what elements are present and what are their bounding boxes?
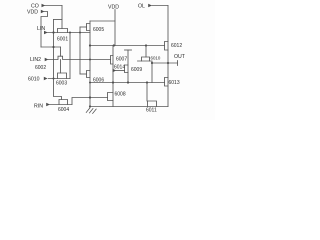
svg-text:6014: 6014 (114, 64, 125, 70)
node OUT label (174, 54, 186, 60)
junction dot O (127, 81, 129, 83)
transistor 6010 gate staple (142, 57, 150, 61)
wire vertical down to gate of 6003 (60, 47, 62, 73)
svg-text:6011: 6011 (146, 108, 157, 114)
junction dot A (52, 31, 54, 33)
transistor 6002 label (35, 65, 46, 71)
wire top horizontal to VDD2 (90, 20, 115, 22)
wire gate lead of 6005 (80, 26, 87, 28)
wire OUT line (152, 62, 178, 64)
wire x152 down (151, 63, 153, 83)
transistor 6004 gate staple (59, 100, 68, 105)
wire link gate line to gate of 6010 (145, 46, 147, 58)
node CO input arrow (42, 4, 46, 7)
svg-text:6005: 6005 (93, 27, 104, 33)
wire column x80 gate of 6005 and 6006 (79, 27, 81, 74)
node RIN input arrow (46, 103, 50, 106)
transistor 6001 label (57, 37, 68, 43)
transistor 6013 gate staple (165, 78, 169, 87)
transistor 6009 gate staple (125, 65, 129, 73)
svg-text:6004: 6004 (58, 107, 69, 113)
wire 6004 drain up and right to gate of 6008 (72, 98, 108, 105)
transistor 6003 gate staple (58, 73, 67, 79)
wire bottom rail (90, 106, 168, 108)
node OL input label (138, 4, 145, 10)
wire channel of 6003 (48, 78, 70, 80)
junction dot M (89, 82, 91, 84)
transistor 6012 label (171, 43, 182, 49)
svg-text:6008: 6008 (115, 91, 126, 97)
ground VSS hatch (86, 108, 96, 114)
node VDD input arrow (41, 10, 45, 13)
junction dot D (79, 32, 81, 34)
transistor 6011 gate staple (148, 101, 157, 107)
svg-text:6009: 6009 (131, 67, 142, 73)
transistor 6005 gate staple (87, 24, 91, 31)
svg-text:RIN: RIN (34, 103, 43, 109)
wire VDD2 lead down (114, 10, 116, 46)
junction dot C (69, 32, 71, 34)
junction dot K (151, 62, 153, 64)
junction dot Q (53, 78, 55, 80)
transistor 6007 label (116, 57, 127, 63)
wire gate lead of 6011 (146, 83, 148, 102)
transistor 6008 label (115, 91, 126, 97)
svg-text:OL: OL (138, 4, 145, 10)
junction dot G (145, 44, 147, 46)
wire gate line of 6012 (90, 45, 165, 47)
wire gate link horizontal (54, 19, 63, 21)
svg-text:6001: 6001 (57, 37, 68, 43)
wire channel of 6004 (50, 104, 72, 106)
transistor 6009 label (131, 67, 142, 73)
node OUT terminal tick (177, 61, 179, 66)
svg-text:6010: 6010 (151, 55, 161, 60)
transistor 6013 label (169, 80, 180, 86)
transistor 6004 label (58, 107, 69, 113)
junction dot B (52, 46, 54, 48)
svg-text:VDD: VDD (27, 10, 38, 16)
wire column x70 (69, 33, 71, 79)
svg-text:OUT: OUT (174, 54, 186, 60)
wire VDD horizontal to gate column (41, 46, 61, 48)
node 6014 input label (114, 64, 125, 70)
junction dot I (89, 96, 91, 98)
node LIN2 input label (30, 57, 41, 63)
wire column x113 (112, 46, 114, 107)
wire gate lead of 6006 (80, 73, 87, 75)
transistor 6007 gate staple (111, 56, 114, 65)
svg-text:6003: 6003 (56, 81, 67, 87)
transistor 6001 gate staple (58, 29, 68, 33)
node RIN input label (34, 103, 43, 109)
junction dot F (113, 44, 115, 46)
wire column x90 channel of 6005 and 6006 (89, 21, 91, 107)
transistor 6003 label (56, 81, 67, 87)
junction dot P (146, 81, 148, 83)
svg-text:LIN2: LIN2 (30, 57, 41, 63)
node VDD input label (left) (27, 10, 38, 16)
svg-text:6002: 6002 (35, 65, 46, 71)
wire gate chain of 6004 (54, 79, 62, 100)
junction dot H (89, 59, 91, 61)
wire channel of 6009 (127, 50, 129, 83)
wire column x53.5 (53, 20, 55, 79)
svg-text:6010: 6010 (28, 76, 40, 82)
node 6010 input arrow (44, 77, 48, 80)
wire CO vertical to gate of 6001 (61, 6, 63, 29)
node LIN input label (37, 26, 45, 32)
junction dot J (89, 105, 91, 107)
svg-text:6007: 6007 (116, 57, 127, 63)
node OL input arrow (148, 4, 152, 7)
wire VDD jog (41, 12, 48, 48)
svg-text:VDD: VDD (108, 5, 119, 11)
wire LIN / channel of 6001 (48, 32, 90, 34)
wire CO horizontal (45, 5, 62, 7)
junction dot E (89, 44, 91, 46)
node LIN2 input arrow (45, 58, 49, 61)
wire gate line of 6013 (90, 82, 165, 84)
transistor 6006 label (93, 77, 104, 83)
node CO input label (31, 4, 39, 10)
supply cap of 6009 (125, 49, 132, 51)
junction dot L (167, 62, 169, 64)
transistor 6011 label (146, 108, 157, 114)
svg-text:6012: 6012 (171, 43, 182, 49)
node VDD label (top middle) (108, 5, 119, 11)
wire 6014 to gate of 6009 (116, 70, 125, 72)
node 6014 input arrow (113, 69, 117, 72)
node 6010 input label (28, 76, 40, 82)
transistor 6010 label (151, 55, 161, 60)
wire LIN2 line with hop (48, 56, 110, 59)
transistor 6008 gate staple (108, 93, 114, 101)
junction dot N (112, 81, 114, 83)
transistor 6012 gate staple (165, 42, 169, 51)
transistor 6006 gate staple (87, 71, 91, 78)
wire OL horizontal (152, 5, 168, 7)
wire right column x168 (167, 6, 169, 107)
node LIN input arrow (44, 31, 48, 34)
transistor 6010 channel (138, 61, 153, 63)
transistor 6005 label (93, 27, 104, 33)
svg-text:6013: 6013 (169, 80, 180, 86)
